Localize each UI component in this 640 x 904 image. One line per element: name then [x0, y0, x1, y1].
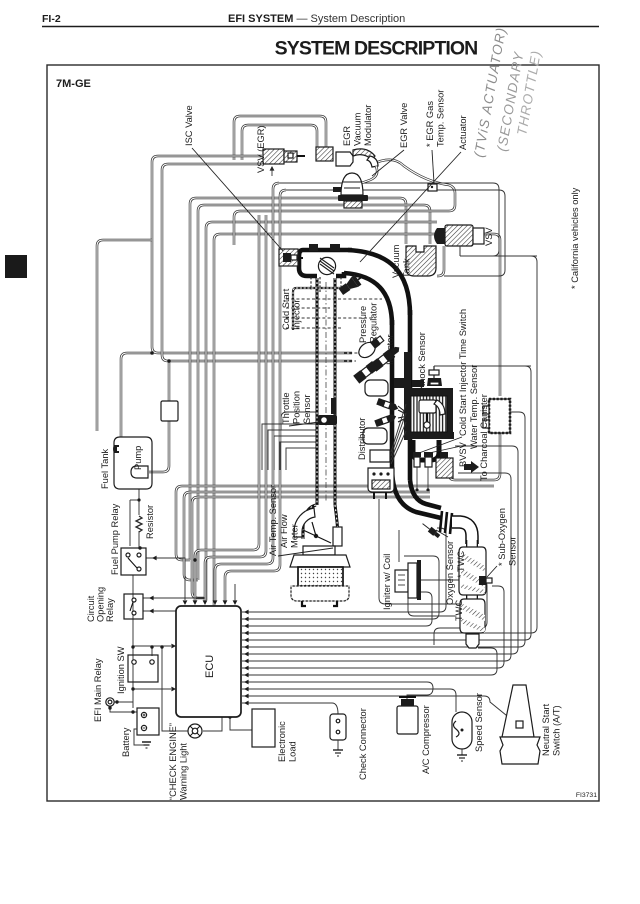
svg-text:ThrottlePositionSensor: ThrottlePositionSensor: [281, 391, 312, 424]
engine block: [404, 352, 454, 440]
wire battery feed to ECU: [133, 688, 171, 690]
engine head detail: [394, 378, 424, 388]
svg-text:Actuator: Actuator: [458, 115, 468, 150]
wire cold start injector fuel pipe: [293, 288, 340, 330]
wire igniter to distributor loop: [421, 580, 487, 645]
svg-text:TWC: TWC: [454, 600, 464, 621]
wire sensor stub: [234, 584, 236, 601]
wire fuel pump relay to ECU: [146, 558, 185, 600]
node junction: [138, 546, 141, 549]
node junction: [115, 700, 118, 703]
ground battery: [134, 729, 151, 748]
wire fuel return line: [162, 164, 352, 361]
fuel filter: [161, 401, 178, 421]
wire harness corner 1: [273, 183, 279, 189]
wire vacuum line to tank port 1: [190, 198, 406, 560]
node junction: [150, 351, 153, 354]
fuel pump: [131, 466, 148, 478]
wire throttle position sensor lead 5: [286, 448, 316, 470]
wire tank vapor line: [97, 240, 152, 431]
wire spark plug lead 3: [391, 422, 406, 460]
wire tank-to-fuel-line hose: [121, 353, 154, 437]
wire pump outlet hose: [149, 421, 169, 472]
distributor: [368, 450, 394, 499]
vacuum tank: [406, 246, 436, 276]
battery: [137, 708, 159, 735]
svg-text:FI-2: FI-2: [42, 13, 61, 25]
wire harness corner 2: [280, 190, 286, 196]
wire vacuum line to tank port 2: [198, 205, 430, 580]
wire throttle position sensor lead 3: [274, 436, 316, 470]
wire EGR circuit: [286, 190, 505, 276]
ground speed sensor: [457, 749, 467, 761]
fuel pump relay: [121, 548, 146, 575]
circuit opening relay: [124, 594, 143, 619]
wire spark plug lead 2: [391, 413, 406, 456]
BVSV valves: [413, 452, 453, 490]
air temp sensor pointer: [278, 548, 333, 556]
wire canister-to-BVSV hose: [449, 433, 500, 480]
node junction: [131, 710, 134, 713]
svg-text:ECU: ECU: [204, 655, 216, 678]
oxygen sensor pointer: [436, 530, 448, 537]
sub-oxygen sensor pointer: [487, 566, 497, 577]
wire vacuum hose loop 1: [234, 116, 326, 160]
throttle valve: [318, 257, 335, 274]
EGR vacuum modulator: [316, 147, 378, 167]
wire VSV to riser: [460, 255, 537, 257]
wire warning light to ECU: [203, 717, 222, 731]
wire spark plug lead 1: [391, 404, 406, 452]
svg-text:* California vehicles only: * California vehicles only: [570, 187, 580, 289]
svg-text:Cold Start Injector Time Switc: Cold Start Injector Time Switch: [458, 309, 468, 436]
node junction: [228, 715, 231, 718]
pressure regulator: [356, 333, 386, 360]
cold start injector: [337, 271, 366, 296]
header rule: [42, 26, 599, 28]
ISC valve: [279, 249, 303, 266]
svg-text:Fuel Pump Relay: Fuel Pump Relay: [110, 503, 120, 575]
svg-text:ISC Valve: ISC Valve: [184, 105, 194, 146]
svg-text:Water Temp. Sensor: Water Temp. Sensor: [469, 365, 479, 449]
wire pump lead join: [130, 499, 139, 501]
svg-text:Neutral StartSwitch (A/T): Neutral StartSwitch (A/T): [541, 703, 562, 756]
svg-text:Speed Sensor: Speed Sensor: [474, 693, 484, 752]
to charcoal canister arrow: [464, 461, 479, 473]
wire resistor bottom lead: [138, 531, 140, 548]
node junction: [108, 706, 111, 709]
wire ECU to BVSV: [242, 473, 511, 661]
wire ECU to igniter: [242, 592, 432, 626]
svg-text:EFI Main Relay: EFI Main Relay: [93, 658, 103, 722]
exhaust flange: [440, 511, 452, 534]
wire resistor to pump lead: [138, 489, 140, 515]
EGR valve pointer: [372, 150, 404, 176]
node junction: [193, 558, 196, 561]
port injector lower: [374, 413, 397, 427]
exhaust manifold: [413, 440, 439, 460]
wire canister purge line 1: [176, 486, 494, 560]
wire knock sensor lead: [434, 365, 531, 367]
node junction: [131, 645, 134, 648]
wire pump lead 2: [129, 500, 131, 546]
svg-text:Oxygen Sensor: Oxygen Sensor: [445, 541, 455, 605]
wire spark plug lead 4: [391, 431, 406, 464]
wire ECU to check connector: [242, 703, 338, 714]
wire ECU to VSV: [242, 256, 537, 633]
port injector upper: [376, 398, 399, 412]
throttle body / air intake chamber: [303, 248, 352, 253]
wire circuit opening relay out 1: [143, 597, 205, 599]
diagram border box: [47, 65, 599, 801]
wire throttle pipe port: [281, 412, 316, 430]
svg-text:FI3731: FI3731: [576, 792, 597, 799]
VSV (EGR) valve: [263, 149, 305, 164]
EGR gas temp sensor: [428, 184, 437, 191]
svg-text:7M-GE: 7M-GE: [56, 78, 91, 90]
BVSV pointer lines: [419, 437, 462, 453]
svg-text:SYSTEM DESCRIPTION: SYSTEM DESCRIPTION: [275, 38, 478, 60]
wire ECU to oxygen sensor: [242, 528, 446, 612]
EFI main relay: [106, 698, 114, 706]
TWC second catalytic converter: [460, 599, 485, 633]
black thumb index tab: [5, 255, 27, 278]
node junction: [131, 687, 134, 690]
exhaust tail pipe: [466, 634, 479, 648]
wire circuit opening relay out 2: [143, 610, 215, 612]
wire distributor lead: [379, 499, 474, 640]
wire ECU to canister circuit: [242, 412, 525, 647]
svg-text:Check Connector: Check Connector: [358, 708, 368, 780]
wire ECU to speed sensor: [242, 689, 456, 712]
node junction: [167, 359, 170, 362]
wire canister purge line 2: [184, 492, 430, 580]
svg-text:Ignition SW: Ignition SW: [116, 646, 126, 694]
node junction: [160, 645, 163, 648]
wire fuel feed line: [152, 156, 352, 353]
wire EFI main relay lead: [114, 701, 133, 703]
chamber top fittings: [309, 244, 318, 251]
wire throttle position sensor lead 2: [268, 430, 316, 470]
ignition SW: [128, 655, 158, 682]
neutral start switch (A/T): [500, 685, 540, 764]
svg-text:Resistor: Resistor: [145, 505, 155, 539]
resistor R1: [136, 516, 142, 532]
wire throttle position sensor lead 1: [262, 424, 316, 470]
actuator pointer: [360, 152, 461, 262]
wire VSV-to-tank hose: [437, 246, 444, 276]
wire ECU to electronic load: [230, 717, 252, 730]
exhaust downpipe: [392, 468, 441, 518]
wire vacuum hoses behind pipe: [286, 299, 382, 361]
injector spray fan: [398, 406, 408, 422]
A/C compressor: [397, 697, 418, 734]
wire coil lead: [398, 530, 400, 562]
throttle position sensor: [318, 398, 337, 425]
wire sensor harness 4: [225, 196, 280, 601]
wire ignition SW to ECU 2: [133, 645, 171, 647]
hose modulator to EGR valve: [356, 166, 377, 185]
wire vacuum line to charcoal canister: [214, 234, 500, 620]
wire igniter lead: [408, 598, 455, 616]
svg-text:Fuel Tank: Fuel Tank: [100, 449, 110, 489]
ECU U1: [176, 606, 241, 717]
wire ECU to A/C compressor: [242, 682, 433, 704]
intake air pipe down to air flow meter: [316, 278, 319, 505]
svg-text:VSV: VSV: [484, 227, 494, 246]
oxygen sensor: [421, 521, 441, 539]
EGR valve: [333, 173, 368, 208]
svg-text:A/C Compressor: A/C Compressor: [421, 705, 431, 774]
wire relay chain: [132, 575, 134, 708]
svg-text:Battery: Battery: [121, 727, 131, 757]
charcoal canister: [483, 399, 510, 433]
ground check connector: [333, 740, 343, 756]
wire ECU to sub-oxygen sensor: [242, 586, 504, 668]
throttle position sensor pointer: [289, 422, 319, 426]
ISC valve pointer: [192, 148, 283, 251]
injector I2: [353, 361, 378, 384]
wire vacuum line to VSV: [206, 222, 437, 600]
air flow meter: [294, 505, 342, 555]
wire filter upper hose: [168, 361, 171, 401]
svg-text:Distributor: Distributor: [357, 418, 367, 460]
wire ECU to neutral start switch: [242, 696, 517, 724]
svg-text:Igniter w/ Coil: Igniter w/ Coil: [382, 554, 392, 610]
exhaust pipe: [452, 522, 472, 544]
svg-text:BVSV: BVSV: [458, 441, 468, 467]
wire ECU harness return: [242, 648, 497, 675]
svg-text:VSV (EGR): VSV (EGR): [256, 125, 266, 173]
node junction: [150, 645, 153, 648]
sub-oxygen sensor: [479, 576, 492, 585]
wire throttle position sensor lead 4: [280, 442, 316, 470]
wire sensor harness 3: [215, 189, 273, 601]
svg-text:Knock Sensor: Knock Sensor: [417, 332, 427, 390]
wire canister purge line 3: [192, 497, 430, 598]
svg-text:* TWC: * TWC: [456, 551, 466, 578]
wire ignition SW terminal lead: [151, 647, 153, 656]
check connector: [330, 714, 346, 740]
wire EFI main relay to battery: [110, 706, 137, 712]
CHECK ENGINE warning light: [188, 724, 202, 738]
igniter w/ coil: [395, 560, 421, 600]
wire vacuum hose loop 2: [242, 125, 317, 160]
svg-text:Air Temp. Sensor: Air Temp. Sensor: [268, 485, 278, 556]
fuel tank: [113, 437, 152, 489]
svg-text:Pump: Pump: [133, 446, 143, 470]
air cleaner housing: [290, 555, 350, 606]
EGR gas temp sensor pointer: [432, 150, 434, 183]
TWC main catalytic converter: [459, 547, 486, 595]
node BVSV wire junctions: [415, 488, 418, 491]
wire ECU to water temp sensor: [242, 446, 518, 654]
wire sensor harness 1: [195, 215, 259, 601]
wire to warning light: [162, 647, 188, 731]
VSV (California): [434, 225, 484, 256]
intake runner lower: [363, 428, 387, 444]
wire ECU to igniter coil: [242, 556, 439, 619]
wire ECU to knock sensor: [242, 366, 531, 640]
wire EGR pipe: [234, 160, 455, 245]
chamber bottom ports: [311, 277, 341, 292]
wire sensor harness 2: [205, 215, 266, 601]
wire actuator circuit: [279, 183, 499, 256]
svg-text:PressureRegulator: PressureRegulator: [358, 303, 379, 343]
electronic load: [252, 709, 275, 747]
injector I1: [370, 343, 402, 371]
svg-text:EFI SYSTEM — System Descriptio: EFI SYSTEM — System Description: [228, 13, 405, 25]
svg-text:Injector: Injector: [385, 335, 395, 366]
speed sensor: [452, 712, 472, 749]
chamber left wall: [299, 250, 317, 276]
svg-text:To Charcoal Canister: To Charcoal Canister: [479, 394, 489, 481]
svg-text:EGR Valve: EGR Valve: [399, 103, 409, 148]
intake runner upper: [365, 380, 388, 396]
knock sensor: [427, 366, 442, 386]
